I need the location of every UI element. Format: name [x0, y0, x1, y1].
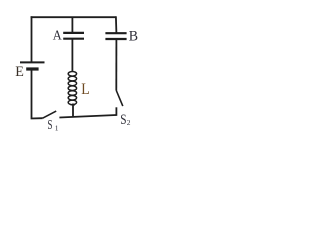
- switch S2 lower contact stub: [115, 107, 117, 116]
- capacitor B top plate: [105, 32, 126, 34]
- wire B branch top stub (top-right corner to capacitor B): [115, 16, 118, 33]
- wire left vertical lower (battery to bottom-left corner): [31, 69, 33, 118]
- svg-text:A: A: [53, 28, 62, 43]
- inductor bottom curl tick: [71, 104, 75, 106]
- wire inductor bottom lead to bottom wire: [72, 104, 74, 118]
- svg-text:E: E: [15, 63, 24, 80]
- svg-text:S: S: [47, 117, 52, 132]
- wire A branch lower stub (capacitor A to inductor): [71, 39, 73, 72]
- inductor L coil: [68, 72, 76, 105]
- svg-text:2: 2: [127, 118, 131, 127]
- capacitor B bottom plate: [105, 38, 126, 40]
- wire bottom left segment (corner to switch S1 pivot): [31, 117, 43, 119]
- wire A branch top stub: [71, 17, 73, 33]
- svg-text:S: S: [120, 112, 126, 128]
- wire left vertical upper (top-left corner down to battery): [31, 16, 33, 62]
- switch S1 blade (open): [43, 111, 57, 118]
- capacitor A bottom plate: [63, 38, 84, 40]
- svg-text:1: 1: [55, 124, 59, 133]
- wire bottom main segment (S1 right contact to bottom-right corner): [59, 115, 116, 118]
- battery E long plate (positive): [20, 61, 45, 63]
- capacitor A top plate: [63, 32, 84, 34]
- battery E short plate (negative): [26, 67, 38, 70]
- switch S2 blade (open, tilted outward): [116, 91, 123, 107]
- wire B branch lower (capacitor B down to switch S2): [115, 39, 117, 91]
- wire top horizontal: [31, 16, 117, 18]
- svg-text:L: L: [81, 81, 89, 98]
- svg-text:B: B: [129, 29, 138, 45]
